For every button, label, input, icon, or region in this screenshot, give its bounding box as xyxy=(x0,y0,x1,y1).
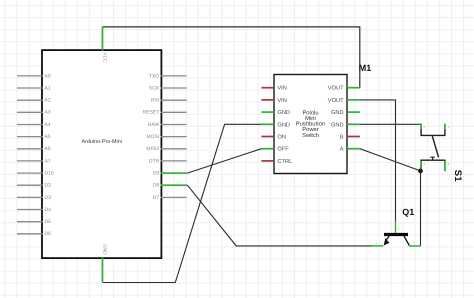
pin TXO xyxy=(149,73,187,79)
pin GND 2 left (connected) xyxy=(261,122,290,128)
wire D8 to Q1 emitter xyxy=(187,185,372,246)
Q1 emitter arrowhead xyxy=(384,238,390,245)
svg-text:D9: D9 xyxy=(153,171,160,177)
svg-text:GND: GND xyxy=(331,122,344,128)
svg-text:RAW: RAW xyxy=(148,122,160,128)
pin A5 xyxy=(17,134,51,140)
pin GND 1 right (connected) xyxy=(331,110,360,116)
S1 pin 3 tip (top left) xyxy=(420,124,422,129)
pin A (connected) xyxy=(340,147,360,153)
wire VCC to M1 VOUT1 (top horizontal + right vertical) xyxy=(103,27,360,88)
Arduino Pro Mini body xyxy=(42,50,161,258)
svg-text:VIN: VIN xyxy=(277,98,286,104)
svg-text:A6: A6 xyxy=(45,146,51,152)
pin A3 xyxy=(17,110,51,116)
wire GND bottom run from Arduino GND up to Pololu GND2 left xyxy=(103,124,262,282)
pin GND (bottom, connected) xyxy=(103,244,108,282)
svg-text:A0: A0 xyxy=(45,73,51,79)
pin VOUT 1 (connected) xyxy=(328,86,360,92)
svg-text:A4: A4 xyxy=(45,122,51,128)
pin GND 1 left (connected) xyxy=(261,110,290,116)
svg-text:VIN: VIN xyxy=(277,86,286,92)
svg-text:VOUT: VOUT xyxy=(328,98,344,104)
pin SCK xyxy=(149,85,187,91)
pin A4 xyxy=(17,122,51,128)
svg-text:Q1: Q1 xyxy=(402,207,414,217)
pin D10 xyxy=(17,171,54,177)
svg-text:A2: A2 xyxy=(45,98,51,104)
S1 pin 4 tip (top right) xyxy=(444,124,446,130)
svg-text:MOSI: MOSI xyxy=(146,134,159,140)
pin A2 xyxy=(17,98,51,104)
svg-text:MISO: MISO xyxy=(146,146,159,152)
Q1 collector diagonal xyxy=(404,236,409,246)
pin MOSI xyxy=(146,134,186,140)
svg-text:D5: D5 xyxy=(45,219,52,225)
wire junction to Q1 collector xyxy=(420,171,422,246)
svg-text:TXO: TXO xyxy=(149,73,159,79)
pin CTRL (unconnected) xyxy=(261,159,292,165)
pin RAW xyxy=(148,122,187,128)
pin ON (unconnected) xyxy=(261,135,286,141)
Q1 base pin (connected) xyxy=(395,221,397,233)
svg-text:VCC: VCC xyxy=(103,53,108,63)
svg-text:D8: D8 xyxy=(153,183,160,189)
Pololu Mini Pushbutton Power Switch M1 body xyxy=(274,75,347,174)
S1 pin 1 lead to junction xyxy=(420,166,423,171)
S1 bottom contact bar xyxy=(421,160,445,166)
wire D9 to Pololu OFF xyxy=(187,149,261,173)
svg-text:SCK: SCK xyxy=(149,85,160,91)
junction node xyxy=(418,169,423,174)
pin A0 xyxy=(17,73,51,79)
svg-text:RXI: RXI xyxy=(151,98,159,104)
svg-text:A7: A7 xyxy=(45,158,51,164)
svg-text:GND: GND xyxy=(103,244,108,255)
svg-text:GND: GND xyxy=(277,110,290,116)
svg-text:A: A xyxy=(340,147,344,153)
S1 plunger tee xyxy=(430,157,434,160)
Q1 collector pin (connected) xyxy=(409,245,420,247)
svg-text:Arduino-Pro-Mini: Arduino-Pro-Mini xyxy=(81,139,121,145)
svg-text:D3: D3 xyxy=(45,195,52,201)
pin MISO xyxy=(146,146,186,152)
svg-text:D6: D6 xyxy=(45,231,52,237)
svg-text:A1: A1 xyxy=(45,85,51,91)
Q1 emitter diagonal xyxy=(386,236,390,241)
svg-text:D4: D4 xyxy=(45,207,52,213)
pin A7 xyxy=(17,158,51,164)
pin VIN 1 (unconnected) xyxy=(261,86,286,92)
wire M1 VOUT2 to Q1 base xyxy=(360,100,396,221)
svg-text:DTR: DTR xyxy=(149,158,160,164)
svg-text:S1: S1 xyxy=(452,170,463,182)
svg-text:RESET: RESET xyxy=(143,110,160,116)
wire M1 GND2 right to S1 pin xyxy=(360,123,421,125)
svg-text:CTRL: CTRL xyxy=(277,159,292,165)
pin B (unconnected) xyxy=(340,135,360,141)
pin VOUT 2 (connected) xyxy=(328,98,360,104)
pin OFF (connected) xyxy=(261,147,289,153)
svg-text:GND: GND xyxy=(277,122,290,128)
pin VIN 2 (unconnected) xyxy=(261,98,286,104)
pin RESET xyxy=(143,110,187,116)
svg-text:OFF: OFF xyxy=(277,147,289,153)
svg-text:D7: D7 xyxy=(153,195,160,201)
pin RXI xyxy=(151,98,187,104)
pin D7 xyxy=(153,195,187,201)
S1 pin 2 tip (bottom right) xyxy=(444,161,446,171)
svg-text:M1: M1 xyxy=(359,63,372,73)
svg-text:Switch: Switch xyxy=(302,132,319,139)
svg-text:D10: D10 xyxy=(45,171,54,177)
svg-text:A5: A5 xyxy=(45,134,51,140)
pushbutton S1 top contact bar xyxy=(421,129,445,136)
pin A6 xyxy=(17,146,51,152)
pin VCC (top, connected) xyxy=(103,27,108,63)
pin GND 2 right (connected) xyxy=(331,122,360,128)
pin D8 (connected) xyxy=(153,183,188,189)
svg-text:B: B xyxy=(340,135,344,141)
svg-text:D2: D2 xyxy=(45,183,52,189)
Q1 emitter pin (connected) xyxy=(372,245,383,247)
pin D3 xyxy=(17,195,51,201)
svg-text:ON: ON xyxy=(277,135,286,141)
svg-text:A3: A3 xyxy=(45,110,51,116)
wire M1 A to junction xyxy=(360,149,421,171)
svg-text:GND: GND xyxy=(331,110,344,116)
pin D6 xyxy=(17,231,51,237)
pin D2 xyxy=(17,183,51,189)
pin A1 xyxy=(17,85,51,91)
pin D9 (connected) xyxy=(153,171,188,177)
pin DTR xyxy=(149,158,187,164)
pin D5 xyxy=(17,219,51,225)
S1 pin 1 tip (bottom left) xyxy=(420,161,422,166)
transistor Q1 base bar xyxy=(384,233,408,236)
pin D4 xyxy=(17,207,51,213)
S1 actuator lever xyxy=(432,136,438,157)
Pololu title text xyxy=(296,109,325,139)
svg-text:VOUT: VOUT xyxy=(328,86,344,92)
